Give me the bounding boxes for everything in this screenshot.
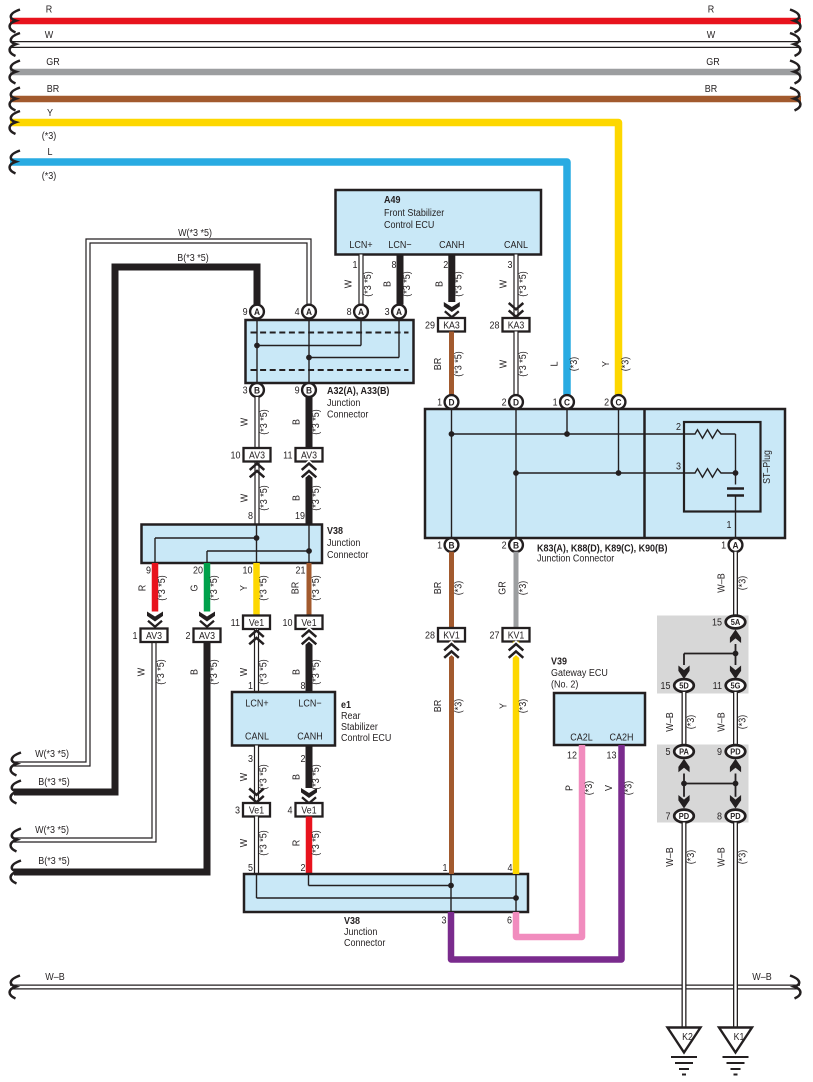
svg-text:A: A	[306, 307, 313, 318]
svg-text:20: 20	[193, 565, 203, 577]
svg-text:BR: BR	[433, 700, 445, 713]
svg-text:Connector: Connector	[327, 409, 369, 421]
svg-text:R: R	[708, 4, 715, 16]
svg-text:7: 7	[666, 811, 671, 823]
svg-text:(*3): (*3)	[583, 781, 595, 795]
svg-text:(*3 *5): (*3 *5)	[362, 271, 374, 296]
svg-text:L: L	[549, 361, 561, 367]
svg-text:CA2H: CA2H	[610, 732, 634, 744]
svg-text:(*3 *5): (*3 *5)	[258, 830, 270, 855]
svg-text:Ve1: Ve1	[249, 804, 264, 816]
svg-text:B: B	[291, 419, 303, 425]
svg-text:B: B	[513, 540, 520, 551]
svg-text:1: 1	[721, 540, 726, 552]
svg-text:4: 4	[288, 805, 294, 817]
svg-text:Y: Y	[498, 702, 510, 709]
svg-text:W(*3 *5): W(*3 *5)	[35, 749, 69, 761]
svg-text:(*3 *5): (*3 *5)	[310, 409, 322, 434]
svg-text:2: 2	[604, 397, 609, 409]
svg-text:BR: BR	[290, 582, 302, 595]
svg-text:(*3): (*3)	[42, 131, 56, 143]
svg-text:(*3 *5): (*3 *5)	[258, 764, 270, 789]
svg-text:28: 28	[490, 320, 500, 332]
svg-text:W–B: W–B	[45, 972, 64, 984]
svg-text:1: 1	[248, 681, 253, 693]
svg-text:9: 9	[717, 747, 722, 759]
svg-text:V38: V38	[344, 916, 361, 928]
svg-text:(*3): (*3)	[453, 699, 465, 713]
svg-text:W: W	[136, 667, 148, 676]
svg-text:(*3 *5): (*3 *5)	[310, 575, 322, 600]
svg-text:4: 4	[508, 863, 514, 875]
svg-text:AV3: AV3	[301, 449, 317, 461]
svg-text:CANH: CANH	[439, 240, 464, 252]
svg-text:GR: GR	[46, 57, 60, 69]
svg-text:W: W	[343, 279, 355, 288]
svg-text:(*3 *5): (*3 *5)	[208, 659, 220, 684]
svg-text:W: W	[707, 30, 716, 42]
svg-text:B: B	[291, 495, 303, 501]
svg-text:W–B: W–B	[665, 847, 677, 866]
svg-text:5A: 5A	[731, 618, 741, 628]
svg-text:B(*3 *5): B(*3 *5)	[38, 856, 69, 868]
svg-text:Front Stabilizer: Front Stabilizer	[384, 208, 445, 220]
svg-text:Y: Y	[47, 108, 54, 120]
svg-text:5: 5	[666, 747, 671, 759]
svg-text:LCN+: LCN+	[245, 698, 269, 710]
svg-text:(*3 *5): (*3 *5)	[208, 575, 220, 600]
svg-text:A32(A), A33(B): A32(A), A33(B)	[327, 386, 389, 398]
svg-text:3: 3	[243, 385, 248, 397]
svg-text:2: 2	[301, 754, 306, 766]
svg-text:29: 29	[425, 320, 435, 332]
svg-text:Junction: Junction	[344, 927, 377, 939]
svg-text:(*3 *5): (*3 *5)	[517, 351, 529, 376]
svg-text:GR: GR	[497, 581, 509, 595]
svg-text:9: 9	[295, 385, 300, 397]
svg-text:12: 12	[567, 750, 577, 762]
svg-text:B: B	[291, 669, 303, 675]
svg-text:(*3 *5): (*3 *5)	[517, 271, 529, 296]
svg-text:BR: BR	[47, 84, 60, 96]
svg-text:1: 1	[353, 260, 358, 272]
svg-text:Gateway ECU: Gateway ECU	[551, 668, 608, 680]
svg-text:BR: BR	[433, 358, 445, 371]
svg-text:K2: K2	[682, 1030, 693, 1042]
svg-text:Junction: Junction	[327, 398, 360, 410]
svg-text:W: W	[498, 279, 510, 288]
svg-text:11: 11	[283, 450, 292, 462]
svg-text:K1: K1	[734, 1030, 745, 1042]
svg-text:Junction: Junction	[327, 538, 360, 550]
svg-text:10: 10	[231, 450, 241, 462]
svg-text:W: W	[239, 772, 251, 781]
svg-text:A: A	[732, 540, 739, 551]
svg-text:B: B	[448, 540, 455, 551]
svg-text:Ve1: Ve1	[249, 616, 264, 628]
svg-text:3: 3	[385, 307, 390, 319]
svg-text:1: 1	[133, 630, 138, 642]
svg-text:Connector: Connector	[344, 938, 386, 950]
svg-text:2: 2	[186, 630, 191, 642]
svg-text:B: B	[189, 669, 201, 675]
svg-text:AV3: AV3	[146, 629, 162, 641]
svg-text:GR: GR	[706, 57, 720, 69]
svg-text:Connector: Connector	[327, 550, 369, 562]
svg-text:W: W	[239, 838, 251, 847]
svg-text:5D: 5D	[679, 681, 689, 691]
svg-text:D: D	[448, 397, 455, 408]
svg-text:3: 3	[442, 915, 447, 927]
svg-text:W–B: W–B	[752, 972, 771, 984]
svg-text:15: 15	[661, 681, 671, 693]
svg-text:Control ECU: Control ECU	[384, 220, 434, 232]
svg-text:W: W	[239, 417, 251, 426]
svg-text:(*3 *5): (*3 *5)	[453, 351, 465, 376]
svg-text:Junction Connector: Junction Connector	[537, 553, 615, 565]
svg-text:LCN−: LCN−	[388, 240, 412, 252]
svg-text:e1: e1	[341, 700, 352, 712]
svg-text:C: C	[564, 397, 571, 408]
svg-text:6: 6	[507, 915, 512, 927]
svg-text:Y: Y	[601, 360, 613, 367]
svg-text:KV1: KV1	[508, 629, 525, 641]
svg-text:V39: V39	[551, 656, 567, 668]
svg-text:(*3): (*3)	[737, 850, 749, 864]
svg-text:1: 1	[443, 863, 448, 875]
svg-text:2: 2	[301, 863, 306, 875]
svg-text:B: B	[291, 774, 303, 780]
svg-text:9: 9	[243, 307, 248, 319]
svg-text:2: 2	[502, 397, 507, 409]
svg-text:27: 27	[490, 630, 500, 642]
svg-text:(*3 *5): (*3 *5)	[310, 830, 322, 855]
svg-text:Ve1: Ve1	[301, 616, 316, 628]
svg-text:CANL: CANL	[245, 731, 270, 743]
svg-text:B(*3 *5): B(*3 *5)	[177, 253, 208, 265]
svg-text:CANL: CANL	[504, 240, 529, 252]
svg-text:8: 8	[248, 511, 253, 523]
svg-text:W: W	[239, 493, 251, 502]
svg-text:W–B: W–B	[716, 573, 728, 592]
svg-text:D: D	[513, 397, 520, 408]
svg-text:PD: PD	[679, 812, 690, 822]
svg-text:(*3 *5): (*3 *5)	[258, 659, 270, 684]
svg-text:W: W	[239, 667, 251, 676]
svg-text:21: 21	[296, 565, 306, 577]
svg-text:(*3): (*3)	[685, 850, 697, 864]
svg-text:W: W	[45, 30, 54, 42]
svg-text:1: 1	[437, 540, 442, 552]
svg-text:10: 10	[283, 617, 293, 629]
svg-text:Stabilizer: Stabilizer	[341, 722, 379, 734]
svg-text:8: 8	[392, 260, 397, 272]
svg-text:3: 3	[248, 754, 253, 766]
svg-text:W–B: W–B	[716, 847, 728, 866]
svg-text:(*3): (*3)	[568, 357, 580, 371]
svg-text:9: 9	[146, 565, 151, 577]
svg-text:(*3): (*3)	[737, 715, 749, 729]
svg-text:LCN+: LCN+	[349, 240, 373, 252]
svg-text:(*3 *5): (*3 *5)	[310, 764, 322, 789]
svg-text:R: R	[137, 585, 149, 592]
svg-text:(*3 *5): (*3 *5)	[453, 271, 465, 296]
svg-text:2: 2	[502, 540, 507, 552]
svg-text:11: 11	[231, 617, 240, 629]
svg-text:3: 3	[508, 260, 513, 272]
svg-text:Control ECU: Control ECU	[341, 733, 391, 745]
svg-text:(*3 *5): (*3 *5)	[401, 271, 413, 296]
svg-text:3: 3	[235, 805, 240, 817]
svg-text:(No. 2): (No. 2)	[551, 679, 578, 691]
svg-text:3: 3	[676, 461, 681, 473]
svg-text:(*3): (*3)	[737, 576, 749, 590]
svg-text:ST–Plug: ST–Plug	[760, 450, 772, 484]
svg-text:1: 1	[437, 397, 442, 409]
svg-text:C: C	[615, 397, 622, 408]
svg-text:(*3 *5): (*3 *5)	[155, 659, 167, 684]
svg-text:(*3): (*3)	[453, 581, 465, 595]
svg-text:(*3 *5): (*3 *5)	[258, 575, 270, 600]
svg-text:(*3): (*3)	[517, 699, 529, 713]
svg-text:W: W	[498, 359, 510, 368]
svg-text:19: 19	[295, 511, 305, 523]
svg-text:B: B	[306, 385, 313, 396]
svg-text:R: R	[46, 4, 53, 16]
svg-text:2: 2	[443, 260, 448, 272]
svg-text:PA: PA	[679, 747, 689, 757]
svg-text:5: 5	[248, 863, 253, 875]
svg-text:Rear: Rear	[341, 711, 361, 723]
svg-text:KV1: KV1	[443, 629, 460, 641]
svg-text:PD: PD	[730, 747, 741, 757]
svg-text:(*3 *5): (*3 *5)	[156, 575, 168, 600]
svg-text:R: R	[291, 840, 303, 847]
svg-text:(*3): (*3)	[620, 357, 632, 371]
svg-text:B: B	[254, 385, 261, 396]
svg-text:8: 8	[301, 681, 306, 693]
svg-text:8: 8	[347, 307, 352, 319]
svg-text:Ve1: Ve1	[301, 804, 316, 816]
svg-text:P: P	[564, 785, 576, 791]
svg-text:2: 2	[676, 422, 681, 434]
svg-text:W(*3 *5): W(*3 *5)	[35, 825, 69, 837]
svg-text:(*3 *5): (*3 *5)	[310, 659, 322, 684]
svg-text:KA3: KA3	[443, 319, 460, 331]
svg-text:A: A	[254, 307, 261, 318]
svg-text:1: 1	[727, 520, 732, 532]
svg-text:BR: BR	[705, 84, 718, 96]
svg-text:28: 28	[425, 630, 435, 642]
svg-text:13: 13	[607, 750, 617, 762]
svg-text:CA2L: CA2L	[570, 732, 593, 744]
svg-text:V38: V38	[327, 526, 344, 538]
svg-text:W–B: W–B	[665, 712, 677, 731]
svg-text:L: L	[48, 147, 54, 159]
svg-text:4: 4	[295, 307, 301, 319]
svg-text:1: 1	[553, 397, 558, 409]
svg-text:KA3: KA3	[508, 319, 525, 331]
svg-text:(*3 *5): (*3 *5)	[310, 485, 322, 510]
svg-text:(*3): (*3)	[42, 171, 56, 183]
svg-text:AV3: AV3	[199, 629, 215, 641]
svg-text:V: V	[604, 784, 616, 791]
svg-text:8: 8	[717, 811, 722, 823]
svg-text:11: 11	[713, 681, 722, 693]
svg-text:15: 15	[712, 617, 722, 629]
svg-text:LCN−: LCN−	[298, 698, 322, 710]
svg-text:BR: BR	[433, 582, 445, 595]
svg-text:10: 10	[243, 565, 253, 577]
svg-text:A49: A49	[384, 195, 400, 207]
svg-text:G: G	[189, 585, 201, 592]
svg-text:B: B	[434, 281, 446, 287]
svg-text:Y: Y	[239, 584, 251, 591]
svg-text:5G: 5G	[731, 681, 741, 691]
svg-text:W–B: W–B	[716, 712, 728, 731]
svg-text:A: A	[358, 307, 365, 318]
svg-text:A: A	[396, 307, 403, 318]
svg-text:CANH: CANH	[297, 731, 322, 743]
svg-text:PD: PD	[730, 812, 741, 822]
svg-text:W(*3 *5): W(*3 *5)	[178, 228, 212, 240]
svg-text:B(*3 *5): B(*3 *5)	[38, 777, 69, 789]
svg-text:(*3): (*3)	[685, 715, 697, 729]
svg-text:(*3 *5): (*3 *5)	[258, 485, 270, 510]
svg-text:B: B	[382, 281, 394, 287]
svg-text:(*3): (*3)	[517, 581, 529, 595]
svg-text:AV3: AV3	[249, 449, 265, 461]
svg-text:(*3): (*3)	[623, 781, 635, 795]
svg-text:(*3 *5): (*3 *5)	[258, 409, 270, 434]
